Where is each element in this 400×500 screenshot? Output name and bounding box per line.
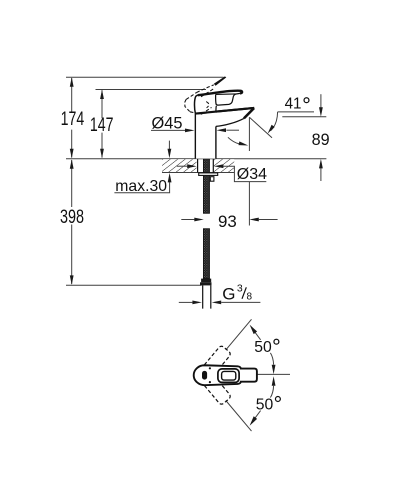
svg-text:Ø34: Ø34 bbox=[237, 166, 267, 183]
svg-text:8: 8 bbox=[247, 292, 253, 303]
svg-text:50: 50 bbox=[254, 339, 272, 356]
svg-text:398: 398 bbox=[60, 207, 84, 228]
svg-text:174: 174 bbox=[61, 109, 85, 130]
svg-text:max.30: max.30 bbox=[115, 178, 167, 195]
svg-text:93: 93 bbox=[218, 213, 237, 231]
svg-text:G: G bbox=[222, 284, 235, 303]
svg-text:Ø45: Ø45 bbox=[152, 115, 183, 133]
svg-text:41: 41 bbox=[285, 95, 302, 112]
svg-text:50: 50 bbox=[256, 396, 274, 413]
svg-text:89: 89 bbox=[312, 130, 330, 149]
svg-text:147: 147 bbox=[90, 115, 114, 136]
svg-text:3: 3 bbox=[237, 283, 243, 295]
